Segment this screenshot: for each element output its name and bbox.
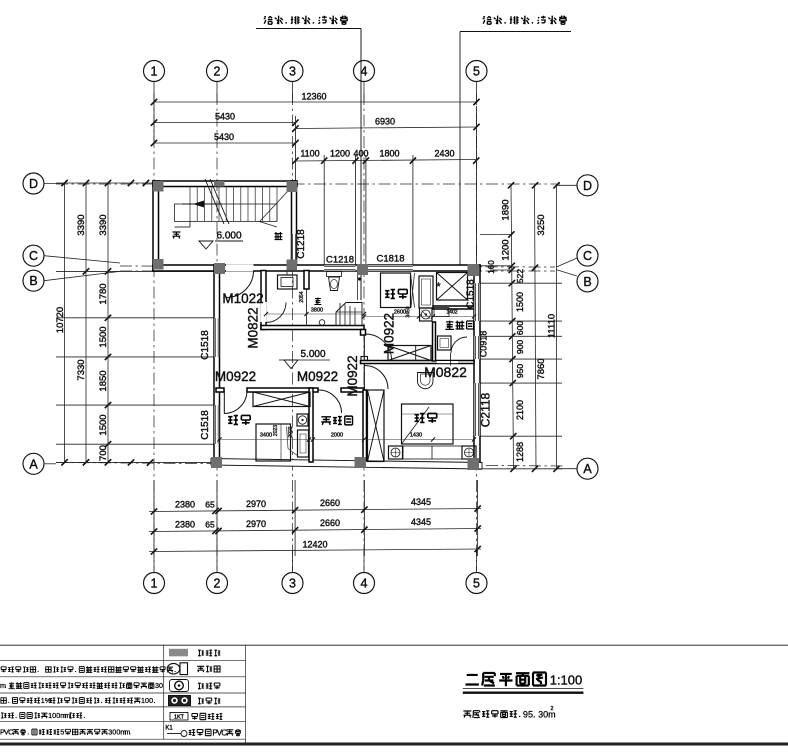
column (153, 259, 164, 270)
bottom dim 12420 (149, 549, 481, 552)
svg-text:1:100: 1:100 (550, 673, 583, 688)
wall right stair (292, 181, 297, 270)
svg-text:D: D (583, 179, 592, 193)
door M0922 mid bedroom arc (366, 334, 392, 360)
svg-text:2100: 2100 (515, 400, 525, 420)
wardrobe X low mid (388, 346, 431, 361)
svg-text:12420: 12420 (302, 540, 327, 550)
title 二层平面图 (466, 673, 547, 687)
stool bedroom1 (297, 414, 308, 426)
svg-text:5430: 5430 (214, 132, 234, 142)
door bedroom1 arc (224, 391, 247, 414)
grid bubble 2 bottom (207, 573, 228, 594)
svg-text:2380: 2380 (175, 520, 195, 530)
wardrobe mid bedroom (419, 276, 433, 308)
svg-text:900: 900 (515, 340, 525, 354)
note row6 (0, 728, 130, 737)
wall storage right (363, 390, 367, 461)
svg-text:1500: 1500 (515, 292, 525, 312)
tall wardrobe X storage right (368, 390, 385, 462)
svg-text:2000: 2000 (331, 433, 343, 439)
column (214, 181, 225, 187)
legend table borders (0, 659, 246, 661)
grid bubble 4 top (354, 61, 375, 82)
grid bubble 3 bottom (282, 573, 303, 594)
svg-text:C1218: C1218 (326, 255, 354, 266)
room label bedroom top (385, 289, 407, 299)
wall bath bottom (261, 326, 364, 330)
grid bubble 1 top (144, 61, 165, 82)
wall bedroom1 top stub (216, 388, 224, 392)
door storage arc (319, 390, 342, 413)
grid bubble A right (577, 458, 598, 479)
svg-text:950: 950 (515, 364, 525, 378)
svg-text:1850: 1850 (98, 370, 109, 391)
svg-text:M0922: M0922 (297, 369, 338, 384)
svg-text:7860: 7860 (536, 358, 547, 379)
svg-text:C: C (8, 728, 13, 737)
axis A centerline (56, 463, 565, 467)
dim chain left detail (107, 183, 109, 462)
note row3 (0, 681, 163, 690)
bottom dim chain row1 (149, 509, 481, 512)
svg-text:C2118: C2118 (479, 392, 493, 427)
svg-text:2: 2 (214, 577, 221, 591)
wall storage left (309, 388, 313, 462)
dim line 6930 (296, 127, 477, 129)
dim chain right detail (511, 185, 514, 469)
svg-text:6930: 6930 (375, 117, 395, 127)
floor drain (319, 320, 325, 326)
pipe duct line (357, 271, 359, 301)
dim line 10720 (64, 183, 66, 462)
dim chain 3390/7330 (85, 183, 87, 462)
svg-text:*: * (436, 281, 441, 293)
interior dim line mid bedroom (364, 316, 474, 318)
level symbol 6.000 (199, 241, 213, 249)
svg-text:600: 600 (515, 321, 525, 335)
svg-text:4: 4 (361, 577, 368, 591)
door M0822 bath opening + arc (260, 302, 266, 322)
svg-text:C1818: C1818 (377, 254, 405, 265)
svg-text:1200: 1200 (501, 239, 512, 260)
axis 2 centerline (216, 93, 218, 570)
bed row bedroom2 bottom (403, 446, 462, 459)
svg-text:3400: 3400 (260, 433, 272, 439)
bed bedroom2 (402, 404, 454, 444)
wall hall stub upper (361, 330, 366, 336)
svg-text:3390: 3390 (98, 214, 109, 235)
svg-text:1800: 1800 (379, 149, 399, 159)
svg-text:65: 65 (205, 520, 215, 530)
wall mid-right horizontal (361, 361, 475, 364)
window C1518 left wall upper (214, 318, 220, 357)
column (211, 457, 222, 468)
grid bubble B right (577, 271, 598, 292)
stair text 下 (173, 232, 181, 239)
svg-text:C1518: C1518 (200, 410, 211, 440)
washer mid (420, 308, 433, 321)
axis D centerline (56, 183, 560, 185)
axis C centerline (120, 266, 555, 267)
column (468, 264, 480, 276)
dim chain 1100/1200/400/1800/2430 (296, 160, 477, 162)
svg-text:700: 700 (98, 445, 109, 461)
svg-text:2660: 2660 (320, 518, 340, 528)
axis 1 centerline (153, 93, 155, 570)
door M0922 storage arc (365, 366, 389, 390)
svg-text:C: C (583, 249, 592, 263)
window C1518 left wall lower (214, 405, 220, 444)
grid bubble 3 top (282, 61, 303, 82)
wall bedroom1 top right seg (341, 388, 364, 392)
column (214, 263, 225, 274)
legend stove symbol (169, 696, 191, 706)
window C1218 stair right wall (292, 234, 297, 262)
svg-text:M0922: M0922 (345, 355, 360, 396)
toilet bath (327, 272, 342, 277)
svg-text:M0922: M0922 (215, 369, 256, 384)
wall right main (474, 265, 480, 469)
svg-text:A: A (29, 457, 38, 471)
svg-text:1100: 1100 (300, 149, 319, 159)
svg-text:522: 522 (515, 269, 525, 283)
svg-text:160: 160 (487, 260, 496, 274)
svg-text:3800: 3800 (311, 308, 323, 314)
svg-text:65: 65 (205, 500, 215, 510)
svg-text:1288: 1288 (515, 442, 525, 462)
window C1218 top wall (324, 265, 355, 271)
stair landing rail (175, 204, 278, 221)
svg-text:3: 3 (289, 65, 296, 79)
window C2118 right wall (474, 383, 480, 436)
svg-text:M0922: M0922 (382, 313, 397, 354)
svg-text:1500: 1500 (98, 414, 109, 435)
svg-text:2380: 2380 (175, 500, 195, 510)
axis 4 centerline (363, 93, 365, 570)
door M0922 mid bedroom leaf (363, 335, 365, 361)
svg-text:2660: 2660 (320, 498, 340, 508)
svg-text:2430: 2430 (434, 149, 454, 159)
grid bubble A left (23, 453, 44, 474)
wall bedroom1 top (247, 388, 318, 392)
sheet bottom thick line (0, 743, 788, 746)
dim line 12360 (154, 101, 477, 103)
nightstand right bedroom2 (462, 446, 476, 459)
legend column symbol (169, 649, 188, 657)
svg-text:12360: 12360 (301, 92, 326, 102)
wardrobe X bedroom1 (253, 392, 310, 407)
grid bubble D left (23, 173, 44, 194)
door M0922 storage leaf (363, 364, 365, 390)
svg-text:4345: 4345 (411, 497, 431, 507)
svg-text:2: 2 (214, 65, 221, 79)
svg-text:2970: 2970 (246, 499, 266, 509)
svg-text:0: 0 (149, 696, 153, 705)
grid bubble B left (23, 270, 44, 291)
svg-text:C1518: C1518 (466, 279, 477, 309)
svg-text:2023: 2023 (288, 426, 294, 437)
wall left main (214, 265, 220, 462)
svg-text:4345: 4345 (411, 517, 431, 527)
bath inner partition line (306, 289, 308, 326)
stair treads (189, 187, 191, 222)
svg-text:C1218: C1218 (296, 229, 307, 259)
wall bath inner (304, 271, 309, 290)
toilet U bottom (418, 373, 434, 389)
column (287, 181, 298, 192)
svg-text:3450: 3450 (406, 306, 412, 317)
interior dim line bath (266, 313, 364, 315)
svg-text:B: B (29, 274, 37, 288)
pipe label 1 (264, 16, 348, 25)
axis B centerline (120, 270, 555, 272)
column (355, 457, 367, 468)
wall wc left (433, 322, 436, 361)
svg-text:2023: 2023 (273, 425, 279, 436)
stair text 上 (275, 232, 283, 240)
svg-text:5: 5 (473, 65, 480, 79)
stair direction arrow (182, 203, 222, 205)
legend AC symbol (170, 713, 188, 721)
nightstand left bedroom2 (389, 446, 403, 459)
grid bubble 1 bottom (144, 573, 165, 594)
svg-text:M0822: M0822 (246, 307, 261, 348)
svg-text:C: C (29, 249, 38, 263)
wc small basin (434, 308, 449, 317)
pipe label 2 (483, 16, 567, 25)
svg-text:K1: K1 (165, 726, 173, 732)
door M1022 opening + arc (226, 264, 254, 271)
wall C/B row band (153, 265, 480, 271)
wall bath left (261, 271, 266, 330)
svg-text:1402: 1402 (446, 310, 457, 316)
grid bubble 4 bottom (354, 573, 375, 594)
grid bubble 5 top (466, 61, 487, 82)
svg-text:B: B (583, 275, 591, 289)
sheet separator line (0, 644, 788, 646)
grid bubble C left (23, 245, 44, 266)
svg-text:1780: 1780 (98, 283, 109, 304)
room label bedroom1 (228, 415, 250, 425)
svg-text:6.000: 6.000 (216, 231, 241, 242)
svg-text:m: m (0, 681, 6, 690)
room label wc (445, 321, 473, 330)
svg-text:1: 1 (151, 65, 158, 79)
dim line 5430 lower (154, 142, 296, 144)
svg-text:11110: 11110 (547, 314, 558, 338)
svg-text:M0822: M0822 (424, 364, 467, 380)
svg-text:M1022: M1022 (222, 291, 263, 306)
subtitle area (463, 709, 555, 719)
svg-text:0: 0 (159, 681, 163, 690)
dim chain 3250/7860 (535, 185, 537, 469)
dim line 11110 (556, 185, 558, 469)
note row2 (1, 666, 176, 672)
door bedroom1 leaf (223, 391, 225, 414)
svg-text:C1518: C1518 (200, 330, 211, 360)
svg-text:A: A (583, 462, 592, 476)
svg-text:3: 3 (289, 577, 296, 591)
svg-text:10720: 10720 (55, 307, 66, 333)
svg-text:m: m (124, 728, 130, 737)
window C0918 right wall (474, 336, 480, 359)
grid bubble 2 top (207, 61, 228, 82)
bottom wall A row (211, 459, 482, 470)
wall left stair (153, 181, 159, 270)
wall wc top (433, 306, 474, 309)
bottom dim chain row2 (149, 529, 481, 532)
pipe riser line 1 (360, 29, 362, 301)
column (357, 264, 368, 275)
room label bath (314, 298, 321, 305)
wall junction box (361, 357, 368, 364)
stair break line (205, 179, 224, 224)
svg-text:D: D (29, 177, 38, 191)
bed bedroom1 (256, 424, 291, 461)
column (153, 181, 164, 192)
svg-text:1890: 1890 (501, 199, 512, 220)
wc toilet (438, 336, 452, 350)
legend basin symbol (170, 680, 189, 692)
svg-text:4: 4 (361, 65, 368, 79)
svg-text:2970: 2970 (246, 519, 266, 529)
legend toilet symbol (167, 663, 179, 674)
dim line 5430 upper (154, 122, 296, 124)
svg-text:2: 2 (551, 706, 554, 712)
wardrobe X top right (437, 273, 468, 301)
room label storage (321, 416, 352, 425)
svg-text:1: 1 (151, 577, 158, 591)
svg-text:1430: 1430 (410, 433, 422, 439)
washbasin counter bath (278, 275, 298, 289)
wall D row (stair top) (153, 181, 297, 187)
wc partition line (450, 353, 452, 366)
room label bedroom2 (415, 413, 437, 423)
grid bubble C right (577, 245, 598, 266)
svg-text:3390: 3390 (76, 214, 87, 235)
svg-text:5.000: 5.000 (300, 349, 325, 360)
svg-text:C0918: C0918 (479, 331, 489, 358)
note row5 (1, 711, 85, 720)
svg-text:5: 5 (60, 728, 64, 737)
grid bubble 5 bottom (466, 573, 487, 594)
interior dim line bottom rooms (220, 439, 475, 441)
cabinet bedroom1 (298, 430, 309, 457)
shower corner bath (336, 303, 362, 326)
svg-text:1200: 1200 (330, 149, 350, 159)
svg-text:1500: 1500 (98, 326, 109, 347)
window C1818 top wall (366, 265, 413, 271)
door wc arc (451, 337, 467, 353)
column (468, 458, 480, 470)
svg-text:5430: 5430 (215, 112, 235, 122)
axis 3 centerline (292, 93, 294, 570)
svg-text:7330: 7330 (76, 359, 87, 380)
grid bubble D right (577, 175, 598, 196)
column (287, 260, 298, 271)
svg-text:3250: 3250 (536, 214, 547, 235)
axis 5 centerline (476, 93, 478, 570)
stair diagonal (260, 191, 288, 221)
svg-text:2054: 2054 (299, 291, 305, 302)
svg-text:5: 5 (473, 577, 480, 591)
bed mid bedroom (381, 273, 411, 308)
svg-text:m: m (64, 711, 70, 720)
svg-text:1KT: 1KT (174, 714, 185, 720)
svg-text:.: . (533, 709, 536, 719)
window C1518 right wall (474, 283, 480, 321)
pipe riser line 2 (459, 32, 461, 267)
note row4 (0, 696, 155, 705)
